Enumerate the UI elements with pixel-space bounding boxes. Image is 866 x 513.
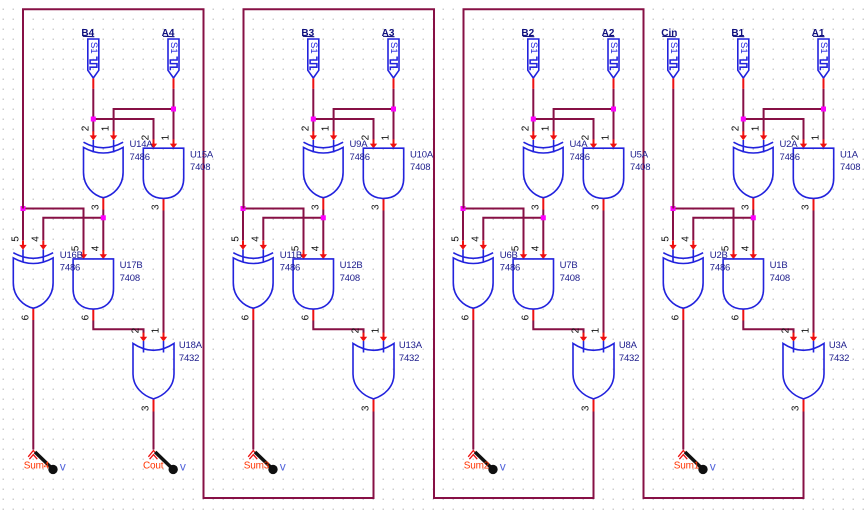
svg-text:U2B: U2B: [710, 250, 728, 261]
svg-text:7486: 7486: [350, 152, 370, 163]
svg-text:U9A: U9A: [350, 139, 369, 150]
svg-text:U4A: U4A: [570, 139, 589, 150]
svg-text:7432: 7432: [179, 353, 199, 364]
svg-text:7408: 7408: [840, 162, 860, 173]
svg-text:U10A: U10A: [410, 149, 434, 160]
svg-text:U3A: U3A: [829, 340, 848, 351]
svg-text:7408: 7408: [190, 162, 210, 173]
svg-text:U13A: U13A: [399, 340, 423, 351]
svg-text:7408: 7408: [770, 273, 790, 284]
svg-text:7432: 7432: [829, 353, 849, 364]
svg-text:U2A: U2A: [780, 139, 799, 150]
svg-text:7486: 7486: [710, 263, 730, 274]
svg-text:7486: 7486: [60, 263, 80, 274]
svg-text:U15A: U15A: [190, 149, 214, 160]
svg-text:7408: 7408: [340, 273, 360, 284]
svg-text:7432: 7432: [399, 353, 419, 364]
svg-text:U6B: U6B: [500, 250, 518, 261]
svg-text:U1B: U1B: [770, 260, 788, 271]
svg-text:7486: 7486: [780, 152, 800, 163]
svg-text:7408: 7408: [560, 273, 580, 284]
svg-text:v: v: [180, 460, 186, 474]
svg-text:S1: S1: [668, 42, 679, 54]
svg-text:U8A: U8A: [619, 340, 638, 351]
svg-text:Cout: Cout: [143, 461, 164, 472]
svg-text:U11B: U11B: [280, 250, 302, 261]
svg-text:U17B: U17B: [120, 260, 143, 271]
svg-text:Sum4: Sum4: [24, 461, 50, 472]
svg-text:7486: 7486: [280, 263, 300, 274]
svg-text:7486: 7486: [130, 152, 150, 163]
svg-text:U5A: U5A: [630, 149, 649, 160]
svg-text:7408: 7408: [120, 273, 140, 284]
svg-text:U12B: U12B: [340, 260, 363, 271]
svg-text:U18A: U18A: [179, 340, 203, 351]
svg-text:7486: 7486: [570, 152, 590, 163]
svg-text:U14A: U14A: [130, 139, 154, 150]
svg-text:7408: 7408: [410, 162, 430, 173]
svg-text:7408: 7408: [630, 162, 650, 173]
svg-text:Sum1: Sum1: [674, 461, 700, 472]
svg-text:Sum2: Sum2: [464, 461, 490, 472]
svg-text:7432: 7432: [619, 353, 639, 364]
svg-text:Sum3: Sum3: [244, 461, 270, 472]
svg-text:U7B: U7B: [560, 260, 578, 271]
svg-text:U1A: U1A: [840, 149, 859, 160]
svg-text:7486: 7486: [500, 263, 520, 274]
svg-text:U16B: U16B: [60, 250, 83, 261]
